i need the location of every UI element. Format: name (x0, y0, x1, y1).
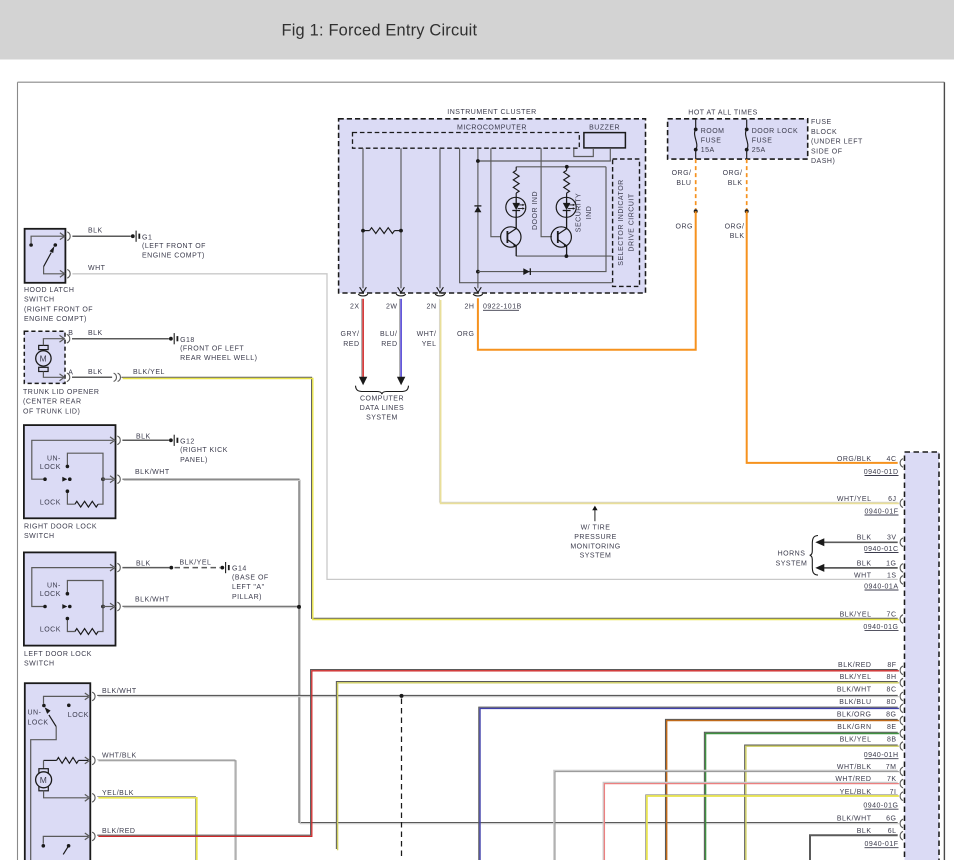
ground G12 (169, 438, 173, 442)
wire BLK 1G horns (824, 567, 898, 569)
svg-text:BLK: BLK (857, 534, 872, 541)
svg-text:DATA LINES: DATA LINES (360, 405, 404, 412)
svg-text:6G: 6G (886, 816, 896, 823)
fuse F1 ROOM FUSE 15A (695, 120, 697, 128)
svg-text:LOCK: LOCK (28, 720, 49, 727)
svg-text:LOCK: LOCK (40, 499, 61, 506)
svg-text:MICROCOMPUTER: MICROCOMPUTER (457, 125, 527, 132)
svg-text:M: M (40, 354, 48, 364)
wire bottom rail of indicator circuit (516, 255, 612, 257)
svg-text:7I: 7I (890, 789, 897, 796)
wire column 2N (439, 148, 441, 288)
wire BLK 3V horns (824, 541, 898, 543)
wire ORG room fuse to instrument cluster 2H (478, 211, 696, 350)
ground G1 (131, 234, 135, 238)
svg-text:BLK/WHT: BLK/WHT (837, 687, 872, 694)
wire YEL/BLK actuator down (97, 797, 195, 860)
svg-text:WHT/YEL: WHT/YEL (837, 496, 872, 503)
wire door transistor base from microcomputer (491, 148, 501, 237)
svg-text:SYSTEM: SYSTEM (366, 415, 398, 422)
svg-text:BLK: BLK (88, 369, 103, 376)
svg-text:LEFT DOOR LOCK: LEFT DOOR LOCK (24, 651, 92, 658)
svg-text:BLK/RED: BLK/RED (838, 662, 871, 669)
svg-text:SELECTOR INDICATOR: SELECTOR INDICATOR (618, 179, 625, 265)
svg-text:0922-101B: 0922-101B (483, 304, 522, 311)
svg-text:1S: 1S (887, 573, 897, 580)
svg-text:BLK/WHT: BLK/WHT (837, 816, 872, 823)
cluster pin 2N (437, 287, 441, 293)
wire diode row to selector box (478, 167, 606, 272)
node diode-row junction on 2H column (476, 270, 480, 274)
wire BLK/GRN connector 8E (704, 732, 897, 860)
svg-text:ENGINE COMPT): ENGINE COMPT) (142, 253, 205, 260)
svg-text:8F: 8F (887, 662, 896, 669)
wire microcomputer to buzzer pin1 (574, 148, 594, 157)
node BLK/WHT junction (297, 605, 301, 609)
diode D2 in horizontal row (523, 268, 530, 275)
svg-text:0940-01A: 0940-01A (864, 583, 898, 590)
wire security transistor base from microcomputer (541, 148, 552, 237)
svg-text:BLK: BLK (88, 330, 103, 337)
wire top rail of indicator circuit (516, 166, 606, 168)
actuator motor M2 (43, 760, 45, 768)
svg-text:BLK/GRN: BLK/GRN (837, 724, 871, 731)
wire column 2W (400, 148, 402, 288)
svg-text:LOCK: LOCK (40, 464, 61, 471)
svg-text:BLK/YEL: BLK/YEL (840, 737, 872, 744)
svg-text:HORNS: HORNS (778, 551, 806, 558)
svg-text:GRY/: GRY/ (341, 331, 360, 338)
svg-text:8D: 8D (887, 699, 897, 706)
svg-text:BLK: BLK (136, 433, 151, 440)
wire BLK/BLU connector 8D (479, 707, 898, 860)
svg-text:HOOD LATCH: HOOD LATCH (24, 287, 74, 294)
node security emitter junction (565, 254, 569, 258)
wire column to selector bottom (460, 148, 612, 283)
svg-text:ORG/: ORG/ (723, 170, 743, 177)
wire BLK/YEL trunk to connector 7C (121, 377, 897, 618)
svg-text:(CENTER REAR: (CENTER REAR (23, 399, 82, 406)
svg-text:0940-01C: 0940-01C (864, 546, 899, 553)
inline connector C1 (114, 373, 117, 381)
wire BLK right door to G12 (122, 439, 168, 441)
svg-text:BLK: BLK (730, 233, 745, 240)
svg-text:(FRONT OF LEFT: (FRONT OF LEFT (180, 346, 244, 353)
svg-text:ENGINE COMPT): ENGINE COMPT) (24, 316, 87, 323)
svg-text:8G: 8G (886, 711, 896, 718)
svg-text:BLK/YEL: BLK/YEL (180, 560, 212, 567)
hood latch pin WHT (60, 270, 65, 277)
right door lock switch box (24, 425, 116, 518)
wire WHT hood latch to connector 1S (72, 274, 897, 580)
wire BLK/WHT left door joins vertical (122, 605, 298, 607)
svg-text:6J: 6J (888, 496, 896, 503)
hood latch switch box (25, 229, 66, 283)
svg-text:SYSTEM: SYSTEM (776, 560, 808, 567)
hood latch switch contacts and blade (31, 236, 65, 243)
connector 8F BLK/RED (900, 666, 903, 675)
ground G18 (169, 337, 173, 341)
wire WHT/RED connector 7K (603, 782, 898, 860)
svg-text:G14: G14 (232, 566, 247, 573)
svg-text:0940-01F: 0940-01F (865, 508, 899, 515)
svg-text:DRIVE CIRCUIT: DRIVE CIRCUIT (628, 193, 635, 251)
svg-text:W/ TIRE: W/ TIRE (581, 525, 611, 532)
svg-text:2W: 2W (386, 304, 398, 311)
svg-text:BLK/ORG: BLK/ORG (837, 711, 872, 718)
svg-text:(UNDER LEFT: (UNDER LEFT (811, 139, 863, 146)
svg-text:BLK: BLK (857, 828, 872, 835)
svg-text:REAR WHEEL WELL): REAR WHEEL WELL) (180, 355, 257, 362)
svg-text:BLK/RED: BLK/RED (102, 828, 135, 835)
svg-text:SYSTEM: SYSTEM (580, 553, 612, 560)
svg-text:YEL: YEL (422, 341, 437, 348)
fuse F2 DOOR LOCK FUSE 25A (746, 120, 748, 128)
diode D1 on 2H column (474, 206, 481, 212)
svg-text:LOCK: LOCK (40, 627, 61, 634)
diagram outer border (18, 81, 945, 83)
svg-text:Fig 1: Forced Entry Circuit: Fig 1: Forced Entry Circuit (282, 21, 478, 39)
svg-text:WHT/: WHT/ (417, 331, 437, 338)
svg-text:SWITCH: SWITCH (24, 661, 55, 668)
svg-text:BLK/YEL: BLK/YEL (840, 674, 872, 681)
svg-text:RED: RED (343, 341, 359, 348)
buzzer box (584, 133, 626, 148)
hood latch pin BLK (60, 233, 65, 240)
trunk motor wires (43, 339, 64, 346)
svg-text:DASH): DASH) (811, 158, 835, 165)
svg-text:FUSE: FUSE (752, 138, 773, 145)
tire pressure monitoring arrow (594, 509, 596, 521)
svg-text:G12: G12 (180, 438, 195, 445)
svg-text:FUSE: FUSE (701, 138, 722, 145)
svg-text:LOCK: LOCK (68, 712, 89, 719)
svg-text:HOT AT ALL TIMES: HOT AT ALL TIMES (688, 110, 757, 117)
svg-text:WHT/RED: WHT/RED (835, 776, 871, 783)
svg-text:SWITCH: SWITCH (24, 297, 55, 304)
svg-text:ORG: ORG (676, 223, 693, 230)
actuator pin BLK/WHT (85, 693, 90, 700)
svg-text:2H: 2H (464, 304, 474, 311)
cluster pin 2W (398, 287, 402, 293)
connector 6G BLK/WHT (900, 819, 903, 828)
svg-text:(RIGHT FRONT OF: (RIGHT FRONT OF (24, 306, 93, 313)
svg-text:B: B (68, 330, 73, 337)
svg-text:4C: 4C (887, 456, 897, 463)
svg-text:BLK: BLK (136, 561, 151, 568)
svg-text:0940-01F: 0940-01F (865, 841, 899, 848)
wire BLK/ORG connector 8G (666, 719, 898, 860)
svg-text:MONITORING: MONITORING (570, 543, 620, 550)
svg-text:0940-01G: 0940-01G (863, 624, 898, 631)
transistor (551, 227, 571, 247)
actuator resistor (44, 759, 57, 761)
actuator switch 2 (43, 836, 88, 843)
node on 2W column (399, 229, 403, 233)
svg-text:TRUNK LID OPENER: TRUNK LID OPENER (23, 389, 99, 396)
trunk motor M1 (39, 345, 48, 349)
ground G14 (220, 566, 224, 570)
LED indicator lamp (556, 197, 576, 217)
svg-text:6L: 6L (888, 828, 897, 835)
svg-text:1G: 1G (886, 560, 896, 567)
resistor R1 between 2X and 2W columns (370, 228, 395, 234)
svg-text:2N: 2N (427, 304, 437, 311)
wire WHT/BLK actuator down (97, 760, 235, 860)
resistor above LED (513, 170, 519, 193)
svg-text:ORG: ORG (457, 331, 474, 338)
connector 8C BLK/WHT (900, 692, 903, 701)
svg-text:BLOCK: BLOCK (811, 129, 837, 136)
node left door BLK splice (169, 566, 173, 570)
wire BLK/YEL connector 8H (336, 682, 897, 849)
svg-text:ORG/BLK: ORG/BLK (837, 456, 872, 463)
svg-text:8H: 8H (887, 674, 897, 681)
svg-text:BLK/YEL: BLK/YEL (133, 369, 165, 376)
wire ORG/BLK dashed from door lock fuse (746, 159, 748, 209)
svg-text:7M: 7M (886, 764, 897, 771)
wire BLK/WHT actuator to connector 8C (97, 694, 898, 696)
svg-text:25A: 25A (752, 147, 766, 154)
wire BLK/YEL dashed to G14 (175, 567, 221, 569)
svg-text:RIGHT DOOR LOCK: RIGHT DOOR LOCK (24, 524, 97, 531)
svg-text:0940-01D: 0940-01D (864, 469, 899, 476)
wire WHT/BLK connector 7M (554, 770, 898, 860)
svg-text:SECURITY: SECURITY (576, 193, 583, 232)
svg-text:UN-: UN- (28, 710, 42, 717)
wire BLK trunk pin B to G18 (72, 338, 169, 340)
microcomputer box U1 (353, 133, 580, 149)
svg-text:0940-01G: 0940-01G (863, 803, 898, 810)
connector 7C BLK/YEL (900, 615, 903, 624)
svg-text:BLU/: BLU/ (380, 331, 398, 338)
svg-text:BLK/YEL: BLK/YEL (840, 612, 872, 619)
door lock actuator box (25, 683, 91, 860)
trunk lid opener box (24, 331, 65, 383)
wire BLK/YEL connector 8B (745, 745, 898, 860)
selector indicator drive circuit box (613, 159, 640, 286)
actuator switch 1 (44, 696, 89, 703)
svg-text:8C: 8C (887, 687, 897, 694)
svg-text:7K: 7K (887, 776, 897, 783)
svg-text:BLK: BLK (88, 228, 103, 235)
wire column 2X (362, 148, 364, 288)
svg-text:7C: 7C (887, 612, 897, 619)
wire BLK connector 6L (810, 835, 898, 860)
wire buzzer pin2 to node 2H column (478, 148, 610, 161)
connector 1S WHT (900, 576, 903, 585)
wire BLK hood latch to G1 (72, 235, 130, 237)
node room fuse splice (694, 209, 698, 213)
title bar (0, 0, 954, 60)
svg-text:WHT: WHT (88, 265, 106, 272)
svg-text:M: M (40, 775, 48, 785)
wire BLK left door to splice (122, 567, 169, 569)
dashed wire from splice down (401, 699, 403, 860)
svg-text:OF TRUNK LID): OF TRUNK LID) (23, 408, 80, 415)
svg-text:(RIGHT KICK: (RIGHT KICK (180, 447, 228, 454)
svg-text:YEL/BLK: YEL/BLK (102, 790, 134, 797)
svg-text:BLK/WHT: BLK/WHT (135, 469, 170, 476)
wire BLK/RED actuator to connector 8F (97, 670, 898, 836)
svg-text:G18: G18 (180, 337, 195, 344)
svg-text:BLK: BLK (728, 180, 743, 187)
wire BLK trunk pin A to inline connector (72, 376, 112, 378)
svg-text:PILLAR): PILLAR) (232, 594, 262, 601)
svg-text:(BASE OF: (BASE OF (232, 574, 269, 581)
svg-text:WHT/BLK: WHT/BLK (837, 764, 872, 771)
svg-text:COMPUTER: COMPUTER (360, 395, 404, 402)
actuator pin YEL/BLK (85, 794, 90, 801)
svg-text:(LEFT FRONT OF: (LEFT FRONT OF (142, 243, 206, 250)
svg-text:0940-01H: 0940-01H (864, 752, 899, 759)
connector 4C ORG/BLK (900, 459, 903, 468)
wire ORG/BLK door lock fuse to connector 4C (747, 211, 898, 463)
svg-text:SWITCH: SWITCH (24, 533, 55, 540)
svg-text:WHT/BLK: WHT/BLK (102, 752, 137, 759)
svg-text:G1: G1 (142, 234, 152, 241)
svg-text:LOCK: LOCK (40, 591, 61, 598)
actuator pin BLK/RED (85, 833, 90, 840)
svg-text:WHT: WHT (854, 573, 872, 580)
svg-text:15A: 15A (701, 147, 715, 154)
svg-text:BUZZER: BUZZER (589, 125, 620, 132)
actuator pin WHT/BLK (85, 757, 90, 764)
svg-text:ORG/: ORG/ (672, 170, 692, 177)
fuse block box (668, 119, 808, 159)
svg-text:INSTRUMENT CLUSTER: INSTRUMENT CLUSTER (447, 109, 536, 116)
svg-text:SIDE OF: SIDE OF (811, 148, 843, 155)
wire BLU/RED from 2W to computer data lines (399, 299, 401, 379)
svg-text:DOOR IND: DOOR IND (532, 191, 539, 230)
resistor above LED (564, 170, 570, 193)
svg-text:ORG/: ORG/ (725, 223, 745, 230)
cluster pin 2X (360, 287, 364, 293)
svg-text:BLK/WHT: BLK/WHT (102, 688, 137, 695)
svg-text:DOOR LOCK: DOOR LOCK (752, 128, 799, 135)
svg-text:LEFT "A": LEFT "A" (232, 584, 265, 591)
svg-text:BLK/BLU: BLK/BLU (839, 699, 871, 706)
svg-text:8B: 8B (887, 737, 897, 744)
svg-text:3V: 3V (887, 534, 897, 541)
node BLK/WHT splice (400, 694, 404, 698)
svg-text:BLU: BLU (676, 180, 691, 187)
wire WHT/YEL from 2N to connector 6J (439, 299, 897, 502)
svg-text:YEL/BLK: YEL/BLK (840, 789, 872, 796)
wire BLK/WHT right door to connector 6G (122, 479, 897, 822)
svg-text:PANEL): PANEL) (180, 457, 208, 464)
svg-text:UN-: UN- (47, 455, 61, 462)
cluster pin 2H (475, 287, 479, 293)
node buzzer junction on 2H column (476, 159, 480, 163)
transistor (501, 227, 521, 247)
svg-text:8E: 8E (887, 724, 897, 731)
right connector block (905, 452, 940, 860)
LED indicator lamp (506, 197, 526, 217)
node door lock fuse splice (745, 209, 749, 213)
trunk pin B (60, 335, 65, 342)
wire ORG/BLU dashed from room fuse (695, 159, 697, 209)
horns system brace (810, 536, 818, 576)
wire column 2H (477, 148, 479, 288)
svg-text:RED: RED (381, 341, 397, 348)
svg-text:FUSE: FUSE (811, 119, 832, 126)
svg-text:2X: 2X (350, 304, 360, 311)
left door lock switch box (24, 552, 116, 645)
wire GRY/RED from 2X to computer data lines (361, 299, 363, 379)
svg-text:UN-: UN- (47, 583, 61, 590)
svg-text:BLK: BLK (857, 560, 872, 567)
node security resistor top (565, 165, 569, 169)
node on 2X column (361, 229, 365, 233)
svg-text:IND: IND (586, 206, 593, 220)
instrument cluster box (339, 119, 646, 293)
svg-text:A: A (68, 369, 73, 376)
svg-text:PRESSURE: PRESSURE (574, 534, 617, 541)
svg-text:BLK/WHT: BLK/WHT (135, 596, 170, 603)
wire YEL/BLK connector 7I (646, 795, 898, 860)
connector 6J WHT/YEL (900, 499, 903, 508)
computer data lines system brace (356, 386, 409, 395)
svg-text:ROOM: ROOM (701, 128, 725, 135)
trunk pin A (60, 374, 65, 381)
